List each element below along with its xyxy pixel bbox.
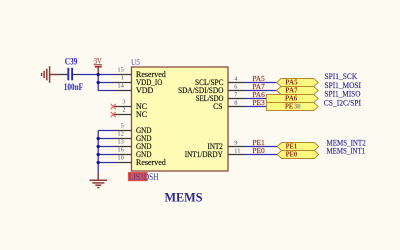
port PA7 (277, 86, 319, 94)
svg-text:8: 8 (234, 99, 237, 106)
pin 8 stub (228, 106, 244, 108)
svg-text:C39: C39 (65, 57, 78, 67)
junction (pin 16) (97, 153, 100, 156)
junction (pin 12) (97, 137, 100, 140)
pin 14 stub (115, 90, 132, 92)
svg-text:9: 9 (234, 139, 237, 146)
wire (vertical 3V net) (97, 75, 99, 91)
wire (to pin 1) (98, 82, 115, 84)
wire (to pin 16) (98, 154, 115, 156)
wire net PA7 (244, 90, 277, 92)
pin 10 stub (115, 162, 132, 164)
svg-text:CS_I2C/SPI: CS_I2C/SPI (324, 99, 361, 108)
junction (pin 10) (97, 161, 100, 164)
ground GND (left of C39) (42, 66, 58, 83)
wire (ground to C39, dark segment) (58, 74, 66, 76)
svg-text:U5: U5 (131, 57, 140, 67)
pin 13 stub (115, 146, 132, 148)
svg-text:16: 16 (117, 147, 123, 154)
power 3V (94, 57, 102, 75)
svg-text:3: 3 (122, 99, 125, 106)
svg-text:PA5: PA5 (285, 78, 298, 86)
svg-text:PE: PE (285, 102, 293, 110)
svg-text:MEMS: MEMS (165, 189, 203, 204)
wire (to pin 5) (98, 130, 115, 132)
wire (C39 right lead, dark) (73, 74, 80, 76)
pin 11 stub (228, 154, 244, 156)
pin 7 stub (228, 98, 244, 100)
no-connect X pin 3 (111, 104, 116, 109)
svg-text:SPI1_MOSI: SPI1_MOSI (325, 81, 362, 90)
svg-text:CS: CS (213, 102, 222, 111)
wire (GND bus vertical) (97, 131, 99, 173)
pin 1 stub (115, 82, 132, 84)
svg-text:LIS3DSH: LIS3DSH (129, 172, 159, 182)
pin 15 stub (115, 74, 132, 76)
port PA5 (277, 78, 319, 86)
svg-text:SPI1_SCK: SPI1_SCK (325, 72, 358, 81)
svg-text:PA7: PA7 (285, 86, 298, 94)
wire net PE3 (244, 106, 267, 108)
svg-text:MEMS_INT1: MEMS_INT1 (327, 147, 366, 156)
wire (to pin 14) (98, 90, 115, 92)
junction (pin 1) (97, 81, 100, 84)
svg-text:Reserved: Reserved (136, 158, 166, 167)
junction (3V / pin15) (97, 73, 100, 76)
wire (to pin 13) (98, 146, 115, 148)
port PE0 (277, 150, 319, 158)
op-amp U5 body (LIS3DSH IC) (132, 67, 229, 171)
svg-text:5: 5 (121, 123, 124, 130)
pin 2 stub (113, 114, 131, 116)
svg-text:PE1: PE1 (286, 142, 298, 150)
ground (bottom of GND bus) (90, 173, 108, 188)
pin 3 stub (113, 106, 131, 108)
pin 16 stub (115, 154, 132, 156)
pin 9 stub (228, 146, 244, 148)
svg-text:NC: NC (136, 110, 147, 119)
pin 4 stub (228, 82, 244, 84)
svg-text:PE0: PE0 (252, 146, 265, 155)
wire (to pin 12) (98, 138, 115, 140)
junction (pin 13) (97, 145, 100, 148)
pin 5 stub (115, 130, 132, 132)
svg-text:15: 15 (117, 67, 123, 74)
wire net PA5 (244, 82, 277, 84)
port PE1 (277, 142, 319, 150)
capacitor C39 (64, 57, 84, 92)
wire (to C39 left plate) (66, 74, 68, 76)
svg-text:6: 6 (234, 83, 237, 90)
svg-text:PE3: PE3 (252, 98, 265, 107)
svg-text:11: 11 (234, 147, 240, 154)
wire net PE1 (244, 146, 278, 148)
svg-text:PE0: PE0 (286, 150, 298, 158)
svg-text:13: 13 (117, 139, 123, 146)
svg-text:SPI1_MISO: SPI1_MISO (325, 90, 361, 99)
no-connect X pin 2 (111, 112, 116, 117)
svg-text:100nF: 100nF (64, 82, 84, 92)
pin 6 stub (228, 90, 244, 92)
wire (junction to pin 15) (98, 74, 115, 76)
svg-text:VDD: VDD (136, 86, 154, 95)
svg-text:2: 2 (122, 107, 125, 114)
wire net PA6 (244, 98, 267, 100)
svg-text:PA6: PA6 (285, 94, 298, 102)
svg-text:14: 14 (117, 83, 124, 90)
svg-text:1: 1 (121, 75, 124, 82)
wire (to pin 10) (98, 162, 115, 164)
wire net PE0 (244, 154, 278, 156)
svg-text:10: 10 (117, 155, 123, 162)
svg-text:3V: 3V (94, 57, 102, 66)
svg-text:12: 12 (117, 131, 123, 138)
wire (C39 to junction, net 3V) (80, 74, 99, 76)
port PA6 (267, 94, 319, 102)
pin 12 stub (115, 138, 132, 140)
part name LIS3DSH (selected) (128, 172, 159, 182)
svg-text:INT1/DRDY: INT1/DRDY (185, 150, 223, 159)
port PE3 (267, 102, 319, 110)
